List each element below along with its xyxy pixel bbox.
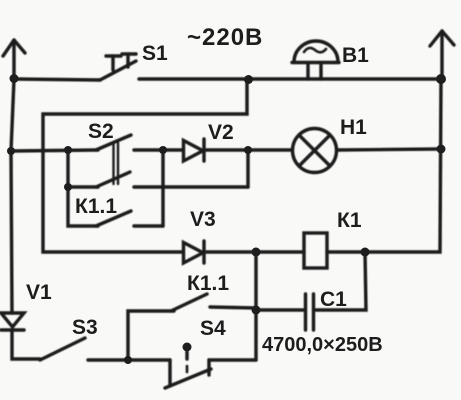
svg-text:V2: V2 [208, 121, 234, 144]
svg-text:V1: V1 [26, 281, 52, 304]
svg-text:В1: В1 [342, 44, 369, 67]
svg-text:К1.1: К1.1 [187, 272, 229, 295]
svg-text:S2: S2 [88, 120, 114, 143]
svg-text:К1.1: К1.1 [75, 195, 117, 218]
svg-text:S4: S4 [200, 317, 226, 340]
svg-text:Н1: Н1 [340, 116, 367, 139]
svg-text:4700,0×250В: 4700,0×250В [262, 334, 383, 356]
svg-text:S3: S3 [72, 316, 98, 339]
svg-text:V3: V3 [190, 208, 216, 231]
svg-text:~220В: ~220В [187, 24, 263, 51]
svg-text:S1: S1 [142, 42, 168, 65]
svg-text:С1: С1 [320, 288, 347, 311]
svg-text:К1: К1 [337, 209, 362, 232]
